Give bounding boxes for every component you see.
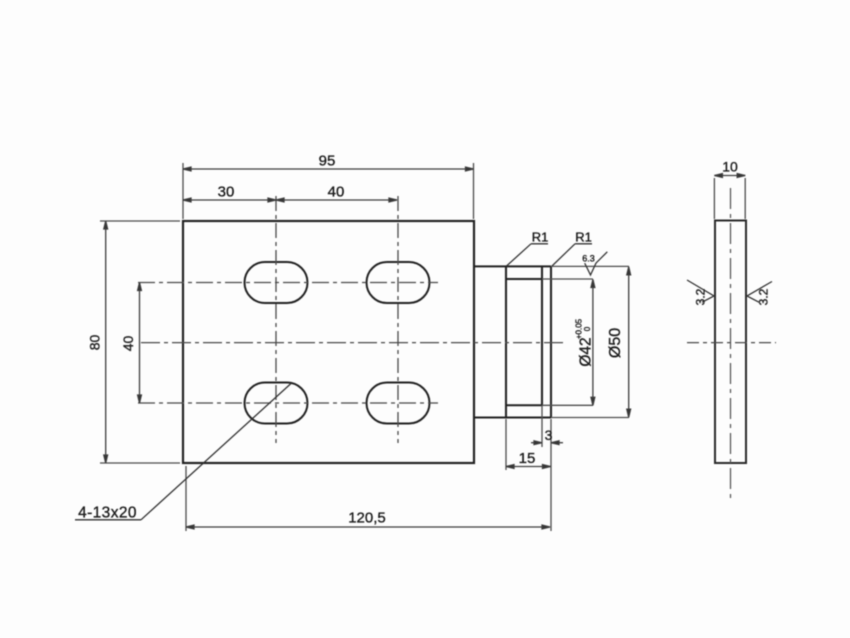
dimension 10 (side view) (714, 159, 745, 220)
boss outer top line (474, 265, 551, 267)
svg-text:6.3: 6.3 (582, 254, 595, 264)
label R1 (right) with leader (552, 230, 592, 267)
right hole column centerline (397, 196, 399, 443)
slot hole bottom-right 13x20 (367, 383, 430, 424)
svg-text:R1: R1 (575, 230, 592, 245)
svg-text:40: 40 (120, 336, 136, 352)
svg-text:40: 40 (328, 184, 345, 201)
svg-text:0: 0 (583, 326, 592, 331)
boss outer bottom line (474, 416, 551, 418)
top hole row centerline (138, 282, 438, 284)
surface finish 6.3 symbol (top of d42 dim) (582, 252, 607, 275)
svg-text:80: 80 (87, 335, 103, 351)
svg-text:30: 30 (218, 184, 235, 201)
side view horizontal centerline (687, 342, 776, 344)
boss groove right vertical (541, 266, 543, 405)
svg-text:15: 15 (519, 450, 536, 467)
svg-text:4-13x20: 4-13x20 (78, 505, 137, 522)
dimension 15 (506, 419, 551, 470)
slot hole top-left 13x20 (245, 262, 308, 303)
boss groove bottom line (d42) (506, 404, 542, 406)
main horizontal centerline (141, 342, 565, 344)
side view vertical centerline (730, 188, 732, 499)
svg-text:Ø50: Ø50 (607, 328, 624, 358)
label R1 (left) with leader (507, 230, 549, 267)
slot hole top-right 13x20 (367, 262, 430, 303)
svg-text:R1: R1 (532, 230, 549, 245)
dimension 80 (left vertical) (87, 221, 181, 463)
left hole column centerline (275, 196, 277, 443)
label 4-13x20 with leader through bottom-left slot (75, 384, 291, 522)
boss groove left vertical (505, 266, 507, 417)
svg-text:Ø42: Ø42 (578, 337, 595, 366)
slot hole bottom-left 13x20 (245, 383, 308, 424)
dimension d42 +0.05/0 (542, 279, 595, 405)
bottom hole row centerline (138, 402, 438, 404)
svg-text:10: 10 (722, 159, 738, 175)
boss end face vertical (550, 266, 552, 417)
surface finish 3.2 symbol (side view left) (687, 280, 714, 305)
dimension 120,5 (186, 466, 550, 531)
svg-text:3.2: 3.2 (757, 288, 771, 305)
dimension 3 (531, 405, 563, 531)
side view plate rectangle (715, 221, 746, 464)
dimension 40 (left vertical between rows) (120, 283, 141, 404)
svg-text:120,5: 120,5 (348, 510, 386, 527)
dimension 30 / 40 chain (183, 184, 397, 202)
dimension 95 (183, 153, 474, 220)
svg-text:3: 3 (545, 427, 553, 443)
plate outline (front view) (183, 221, 474, 463)
svg-text:3.2: 3.2 (694, 288, 708, 305)
boss groove top line (d42) (506, 278, 542, 280)
dimension d50 (551, 266, 631, 417)
surface finish 3.2 symbol (side view right) (747, 282, 772, 306)
svg-text:95: 95 (319, 153, 336, 170)
